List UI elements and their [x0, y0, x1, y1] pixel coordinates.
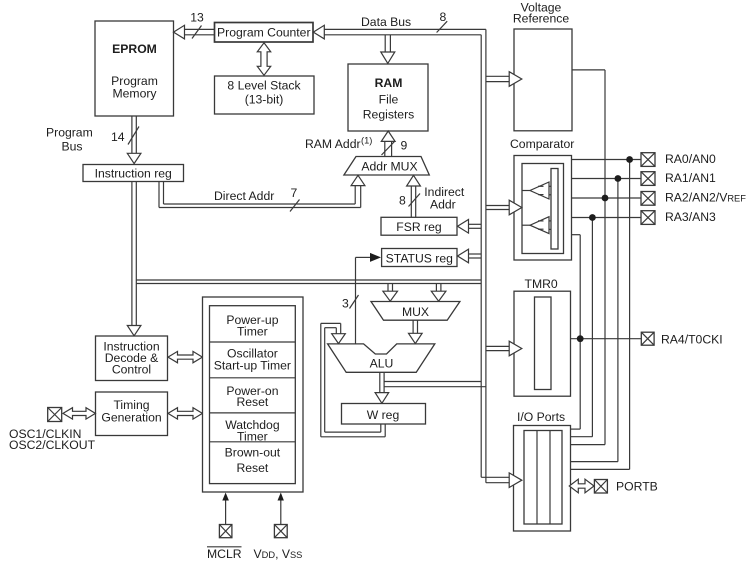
svg-text:Registers: Registers [363, 108, 414, 122]
label Indirect Addr [424, 185, 465, 212]
svg-text:8 Level Stack: 8 Level Stack [227, 79, 301, 93]
timer block outer box [203, 297, 304, 492]
data bus into program counter [313, 25, 486, 39]
svg-text:Program: Program [46, 126, 93, 140]
svg-text:TMR0: TMR0 [525, 277, 558, 291]
wire RA1 net [571, 179, 642, 462]
STATUS reg box [382, 249, 457, 267]
svg-text:8: 8 [399, 194, 406, 208]
direct addr slash 7 [290, 200, 300, 212]
svg-text:Instruction reg: Instruction reg [95, 167, 172, 181]
svg-text:Bus: Bus [62, 140, 83, 154]
TMR0 box [514, 291, 571, 396]
svg-text:Reset: Reset [236, 395, 268, 409]
data bus slash 8 [437, 21, 448, 32]
svg-text:RA1/AN1: RA1/AN1 [665, 171, 716, 185]
svg-text:Comparator: Comparator [510, 137, 574, 151]
double arrow OSC to timing generation [63, 408, 95, 419]
double arrow I/O ports to PORTB [569, 479, 594, 493]
wire RA2 net [572, 197, 642, 199]
addr mux trapezoid [344, 157, 429, 176]
W reg box [342, 404, 426, 425]
FSR reg box [381, 217, 457, 235]
bus data bus to TMR0 [486, 341, 522, 356]
svg-text:RAM: RAM [375, 76, 403, 90]
bus MUX to ALU [409, 320, 423, 343]
bus branch data bus to RAM [381, 35, 395, 64]
bus data bus to comparator [486, 200, 522, 215]
ALU shape [328, 344, 435, 372]
EPROM program memory box [95, 21, 174, 116]
I/O ports box [514, 426, 571, 532]
svg-text:MUX: MUX [402, 305, 429, 319]
bus data bus to FSR reg [458, 220, 482, 234]
literal bus instruction reg to mux and data bus [136, 280, 481, 284]
label program bus [46, 126, 93, 154]
svg-text:9: 9 [401, 139, 408, 153]
program bus EPROM to instruction reg [127, 116, 141, 164]
pin PORTB [594, 480, 657, 494]
bus data bus to STATUS reg [458, 249, 482, 263]
direct addr bus instruction reg to addr mux [159, 175, 365, 207]
svg-text:(1): (1) [361, 136, 372, 146]
bus PC to EPROM (13-bit) [174, 25, 215, 39]
svg-text:FSR reg: FSR reg [396, 220, 441, 234]
svg-text:7: 7 [291, 186, 298, 200]
svg-text:PORTB: PORTB [616, 480, 658, 494]
svg-text:File: File [379, 93, 399, 107]
junction dot RA3 [589, 214, 596, 221]
bus branch into MUX left input [383, 284, 398, 302]
svg-text:Control: Control [112, 362, 151, 376]
comparator mux column [551, 169, 558, 250]
program bus slash 14 [128, 127, 139, 145]
wire voltage reference to RA2 net [571, 70, 606, 445]
bus instruction reg to instruction decode [127, 182, 141, 336]
RAM file registers box [348, 64, 428, 131]
svg-text:Data Bus: Data Bus [361, 15, 411, 29]
svg-text:Timer: Timer [237, 324, 268, 338]
svg-text:Generation: Generation [101, 411, 161, 425]
svg-text:MCLR: MCLR [207, 547, 242, 561]
svg-text:EPROM: EPROM [112, 42, 157, 56]
junction dot RA2 [602, 195, 609, 202]
svg-text:RAM Addr: RAM Addr [305, 137, 361, 151]
MUX trapezoid [371, 302, 460, 321]
timing generation box [96, 392, 168, 436]
svg-text:Reset: Reset [236, 461, 268, 475]
comparator C2 triangle [522, 217, 551, 234]
svg-text:Brown-out: Brown-out [225, 446, 281, 460]
VDD VSS pin symbol [274, 525, 287, 538]
svg-text:ALU: ALU [370, 356, 394, 370]
svg-text:Memory: Memory [112, 86, 157, 100]
svg-text:RA4/T0CKI: RA4/T0CKI [661, 333, 723, 347]
wire RA3 net [571, 218, 642, 437]
svg-text:STATUS reg: STATUS reg [386, 251, 453, 265]
indirect addr bus FSR to addr mux with slash 8 [407, 175, 421, 217]
wire comparator output to RA4 net [571, 235, 581, 429]
bus ALU to data bus [384, 382, 486, 387]
label MCLR with overline [207, 547, 242, 561]
comparator outer box [514, 156, 572, 261]
wire MCLR to timer block [222, 493, 229, 525]
svg-text:RA3/AN3: RA3/AN3 [665, 210, 716, 224]
bus slash 13 [192, 26, 202, 39]
pin RA2/AN2/VREF [641, 191, 746, 206]
double arrow timing to timer block [168, 408, 202, 419]
svg-text:Direct Addr: Direct Addr [214, 189, 274, 203]
svg-text:Addr MUX: Addr MUX [361, 160, 417, 174]
svg-text:VDD, VSS: VDD, VSS [254, 547, 303, 561]
junction dot RA0 [626, 156, 633, 163]
junction dot RA1 [615, 175, 622, 182]
pin RA0/AN0 [641, 152, 716, 166]
junction dot RA4 [577, 335, 584, 342]
svg-text:I/O Ports: I/O Ports [517, 410, 565, 424]
instruction reg box [83, 165, 184, 182]
wire TMR0 to RA4 pin [571, 338, 642, 340]
svg-text:Timer: Timer [237, 430, 268, 444]
wire ALU to STATUS reg [356, 253, 382, 344]
comparator C1 triangle [522, 182, 551, 199]
svg-text:3: 3 [342, 297, 349, 311]
svg-text:8: 8 [440, 10, 447, 24]
instruction decode and control box [96, 336, 168, 381]
timer block inner box [210, 306, 296, 484]
svg-text:Start-up Timer: Start-up Timer [214, 359, 291, 373]
pin RA3/AN3 [641, 210, 716, 225]
pin RA1/AN1 [641, 171, 716, 185]
bus data bus to voltage reference [486, 72, 522, 87]
svg-text:Program Counter: Program Counter [217, 25, 310, 39]
data bus vertical right spine [481, 29, 486, 482]
bus branch into MUX right input [431, 284, 446, 302]
svg-text:(13-bit): (13-bit) [245, 93, 284, 107]
svg-text:13: 13 [190, 11, 204, 25]
MCLR pin symbol [219, 525, 232, 538]
svg-text:14: 14 [111, 130, 125, 144]
wire VDD VSS to timer block [278, 493, 284, 525]
voltage reference box [514, 29, 572, 131]
program counter box [215, 23, 314, 43]
label RAM Addr (1) [305, 136, 372, 152]
bus W reg feedback loop to ALU [321, 323, 385, 436]
bus Addr MUX to RAM with slash 9 [381, 131, 395, 157]
bus data bus to I/O ports [481, 473, 522, 488]
label OSC1/CLKIN OSC2/CLKOUT [9, 427, 96, 452]
OSC pin symbol [48, 408, 62, 422]
svg-text:RA2/AN2/VREF: RA2/AN2/VREF [665, 191, 746, 205]
svg-text:W reg: W reg [367, 408, 400, 422]
double arrow decode to timer block [168, 351, 202, 362]
slash 3 on status wire [350, 295, 359, 309]
pin RA4/T0CKI [641, 332, 722, 346]
double arrow PC and stack [257, 43, 270, 76]
8 level stack box [215, 76, 315, 114]
TMR0 inner register [535, 297, 552, 390]
comparator inner box [522, 164, 564, 254]
svg-text:Reference: Reference [513, 12, 569, 26]
I/O ports inner registers [524, 431, 562, 525]
wire RA0 net [571, 160, 642, 470]
svg-text:OSC2/CLKOUT: OSC2/CLKOUT [9, 438, 96, 452]
bus ALU to W reg [375, 372, 389, 403]
svg-text:Addr: Addr [430, 198, 456, 212]
label Voltage Reference [513, 1, 569, 26]
svg-text:RA0/AN0: RA0/AN0 [665, 152, 716, 166]
